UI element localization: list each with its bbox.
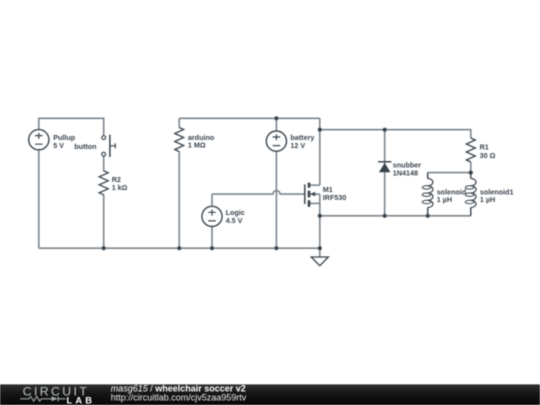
resistor R2 [99, 171, 108, 195]
logo squiggle resistor-diode [20, 396, 65, 401]
svg-text:1 MΩ: 1 MΩ [188, 141, 206, 150]
svg-text:1 µH: 1 µH [480, 195, 495, 204]
svg-text:LAB: LAB [67, 396, 96, 405]
label R1 30 Ohm [480, 143, 496, 160]
voltage source Logic [202, 206, 222, 226]
svg-text:1N4148: 1N4148 [393, 168, 418, 177]
svg-text:button: button [74, 142, 96, 151]
svg-text:30 Ω: 30 Ω [480, 151, 496, 160]
svg-text:IRF530: IRF530 [323, 193, 347, 202]
label Logic 4.5 V [226, 208, 245, 225]
pushbutton switch "button" [102, 135, 116, 157]
label M1 IRF530 [323, 185, 347, 202]
node snubber bottom [383, 214, 387, 218]
label snubber 1N4148 [393, 160, 422, 177]
node ground junction [318, 246, 322, 250]
wire Logic top stub [211, 194, 213, 207]
node battery bottom rail [274, 246, 278, 250]
wire bottom rail [39, 247, 320, 249]
wire solenoid top horizontal [428, 172, 471, 174]
wire R1 bottom [470, 162, 472, 173]
transistor M1 MOSFET [305, 183, 315, 207]
label battery 12 V [290, 133, 314, 150]
inductor solenoid1 [465, 173, 476, 216]
label solenoid 1 uH [437, 187, 467, 204]
node rail B start [318, 128, 322, 132]
footer bar [0, 384, 540, 405]
wire MOSFET drain vertical [319, 118, 321, 185]
node MOSFET source junction [318, 214, 322, 218]
wire gate from Logic with hop over battery wire [212, 191, 305, 195]
voltage source Pullup [29, 130, 49, 150]
svg-text:5 V: 5 V [53, 141, 64, 150]
label solenoid1 1 uH [480, 187, 514, 204]
wire MOSFET source vertical to ground [319, 194, 321, 257]
wire MOSFET body lead [310, 193, 320, 195]
wire battery top stub [275, 118, 277, 131]
voltage source battery [266, 131, 286, 151]
inductor solenoid [422, 173, 433, 216]
wire MOSFET source lead [309, 202, 320, 204]
node arduino bottom rail [177, 246, 181, 250]
wire top rail A arduino to drain [179, 117, 320, 119]
ground [311, 257, 328, 266]
wire MOSFET drain lead [309, 184, 320, 186]
wire button bottom to R2 [103, 156, 105, 171]
label arduino 1 MOhm [188, 133, 215, 150]
wire Pullup bottom [38, 150, 40, 249]
svg-text:http://circuitlab.com/cjv5zaa9: http://circuitlab.com/cjv5zaa959rtv [111, 393, 247, 403]
wire arduino resistor top lead [178, 118, 180, 127]
node battery top [274, 116, 278, 120]
wire snubber vertical [384, 130, 386, 216]
label R2 1 kOhm [112, 175, 128, 192]
node solenoid bottom [426, 214, 430, 218]
wire top rail B to R1 [320, 130, 471, 138]
node snubber top [383, 128, 387, 132]
node Logic bottom rail [210, 246, 214, 250]
resistor arduino [175, 128, 184, 152]
label Pullup 5 V [53, 133, 76, 150]
wire battery bottom [275, 151, 277, 248]
wire solenoid bottom horizontal [320, 215, 471, 217]
node R2 bottom rail [102, 246, 106, 250]
svg-text:4.5 V: 4.5 V [226, 216, 243, 225]
svg-text:12 V: 12 V [290, 141, 305, 150]
wire Pullup top to button [39, 118, 104, 135]
wire R2 bottom to bottom rail [103, 195, 105, 249]
node R1 bottom / solenoid top [469, 171, 473, 175]
wire arduino resistor bottom to rail [178, 151, 180, 248]
svg-text:1 µH: 1 µH [437, 195, 452, 204]
wire Logic bottom [211, 226, 213, 248]
diode snubber [378, 162, 391, 173]
svg-text:1 kΩ: 1 kΩ [112, 183, 128, 192]
resistor R1 [466, 138, 475, 162]
